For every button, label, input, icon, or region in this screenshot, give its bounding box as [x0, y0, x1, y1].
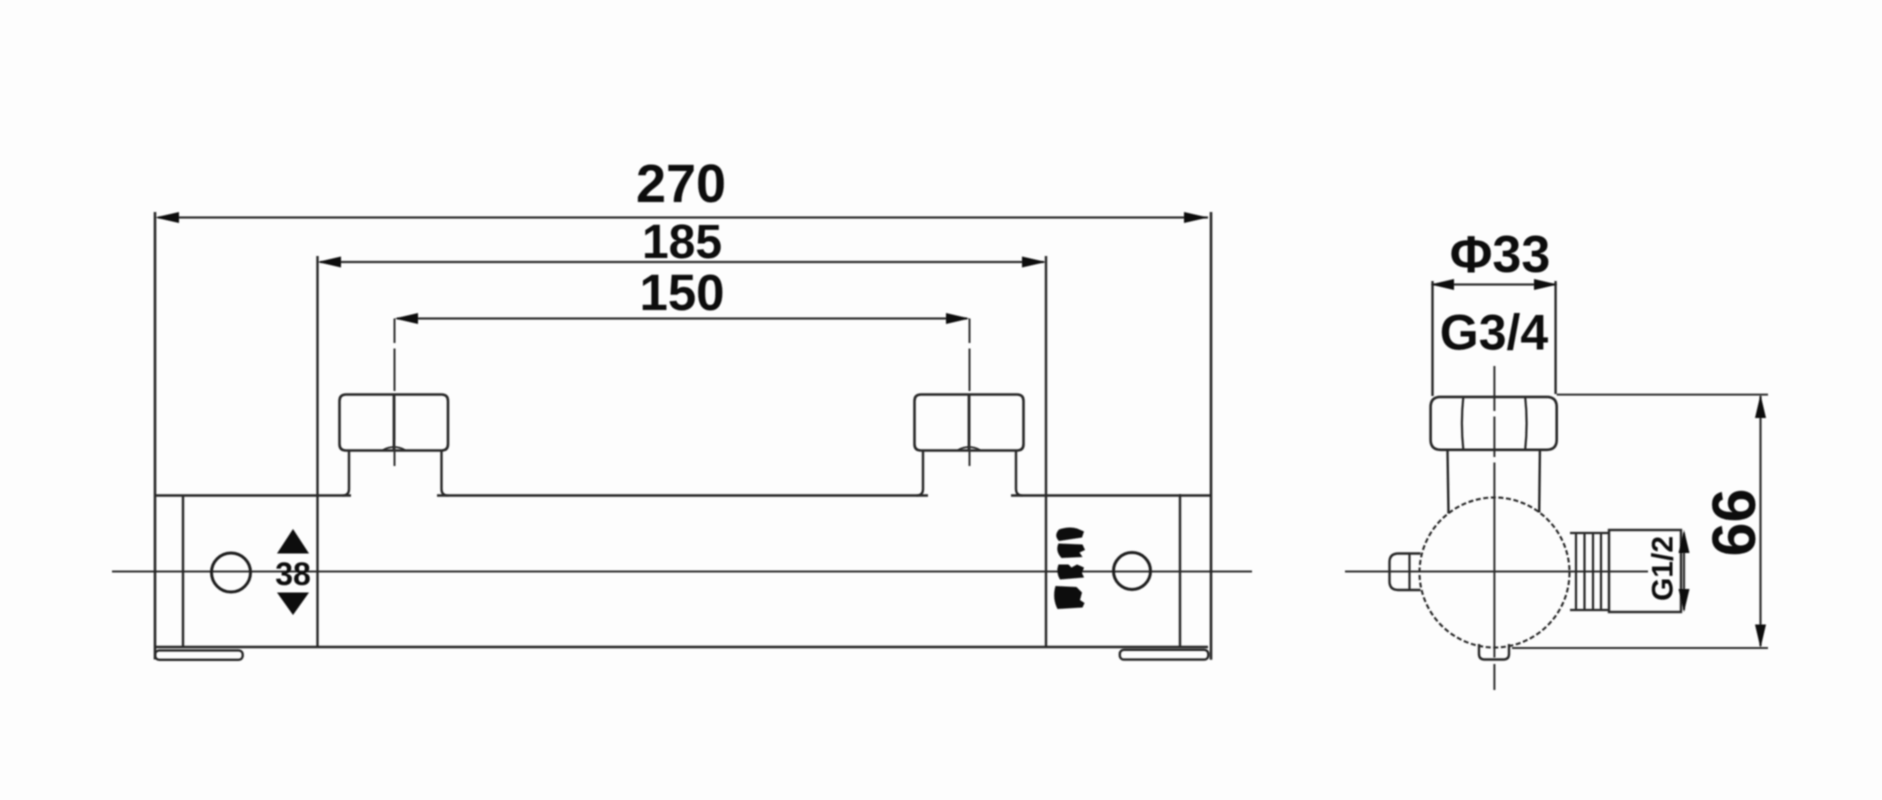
G3/4 tube body [1433, 281, 1556, 396]
left screw hole [212, 553, 251, 592]
side neck [1448, 450, 1540, 514]
dimension G1/2 top arrow [1679, 530, 1690, 553]
body bottom line [154, 646, 1208, 649]
svg-text:270: 270 [636, 154, 726, 214]
svg-text:185: 185 [642, 216, 722, 269]
vertical centerline side view [1493, 366, 1495, 690]
dimension 185 line [320, 261, 1044, 263]
dimension 270 line [158, 216, 1208, 218]
dashed centerline right nut [969, 319, 971, 467]
dimension phi33 left arrow [1431, 279, 1455, 290]
horizontal centerline side view [1345, 571, 1648, 573]
left foot [155, 650, 243, 659]
control markings blobs [1054, 527, 1085, 609]
dimension phi33 right arrow [1534, 279, 1558, 290]
dimension phi33 line [1433, 283, 1556, 285]
right hex nut bottom chamfer arc [957, 447, 981, 451]
right hex nut facet line [968, 395, 971, 451]
svg-text:66: 66 [1700, 489, 1768, 557]
dimension 270 left arrow [155, 212, 179, 223]
control knob circle (dashed) [1420, 498, 1570, 648]
temperature marking down triangle [277, 593, 309, 616]
dimension G1/2 line [1683, 533, 1685, 610]
body top line left segment [154, 494, 351, 497]
dimension 150 line [397, 317, 967, 319]
left inlet hex nut [340, 395, 449, 451]
dimension 185 left arrow [318, 257, 342, 268]
horizontal centerline front view [112, 571, 1252, 573]
dimension 66 bottom arrow [1755, 625, 1766, 649]
body top line right segment [1011, 494, 1210, 497]
dimension 150 left arrow [395, 313, 419, 324]
side hex nut [1431, 397, 1557, 450]
side hex nut facet lines [1462, 397, 1527, 450]
valve body left outer edge / 270 extension [154, 212, 157, 660]
left button nub seam [1408, 554, 1410, 591]
svg-text:G1/2: G1/2 [1647, 536, 1680, 601]
dimension 66 top arrow [1755, 395, 1766, 418]
dimension 150 right arrow [946, 313, 970, 324]
svg-text:150: 150 [639, 264, 724, 321]
right inlet neck [917, 450, 1023, 496]
dimension 185 right arrow [1022, 257, 1046, 268]
outlet ribs [1576, 533, 1601, 610]
valve body right outer edge / 270 extension [1210, 212, 1213, 660]
body top line middle segment [437, 494, 928, 497]
right foot [1120, 650, 1209, 660]
left block right edge / 185 extension [316, 256, 318, 647]
right inlet hex nut [915, 395, 1024, 451]
dimension G1/2 bottom arrow [1679, 589, 1690, 612]
valve body left inner edge [182, 496, 184, 647]
right screw hole [1114, 553, 1151, 590]
top extension line for 66 [1557, 394, 1768, 396]
left inlet neck [343, 450, 449, 496]
left hex nut bottom chamfer arc [382, 447, 406, 451]
left button nub [1390, 554, 1421, 591]
outlet cylinder G1/2 [1609, 530, 1681, 612]
outlet ribs top and bottom edges [1570, 533, 1609, 610]
dashed centerline left nut [394, 319, 396, 467]
temperature marking up triangle [277, 529, 309, 554]
bottom extension line for 66 [1512, 647, 1768, 649]
dimension 270 right arrow [1184, 212, 1208, 223]
right block inner edge [1179, 494, 1181, 647]
left hex nut facet line [393, 395, 396, 451]
right block left edge / 185 extension [1045, 256, 1047, 647]
svg-text:Φ33: Φ33 [1450, 226, 1551, 284]
svg-text:38: 38 [275, 556, 311, 592]
svg-text:G3/4: G3/4 [1440, 305, 1549, 361]
dimension 66 line [1759, 396, 1761, 646]
bottom outlet nub [1479, 644, 1509, 660]
